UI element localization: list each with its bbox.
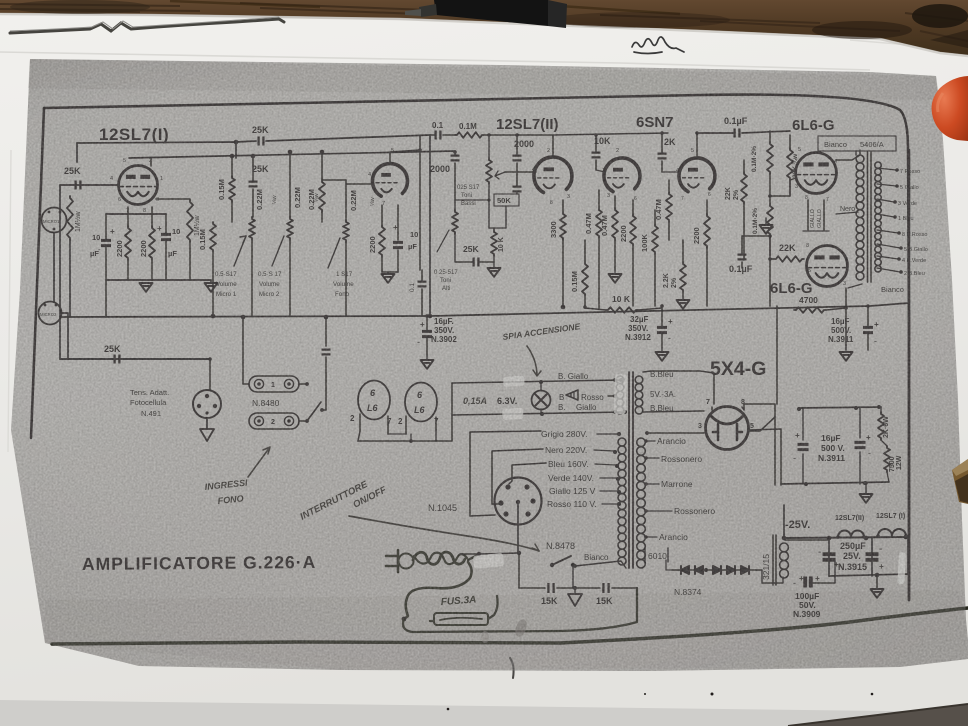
heater winding right [635, 376, 643, 384]
potentiometer 0.22M volume micro2 [287, 217, 293, 240]
resistor 2200 cathode 1 [125, 226, 131, 260]
wire lamp bracket [436, 383, 452, 441]
socket 6L6 B [405, 383, 437, 422]
wire rect pins [712, 404, 775, 485]
op tube V3b 6SN7 second [679, 158, 715, 192]
wire grid 6L6a [790, 178, 796, 180]
secondary tap 1 Bleu [877, 214, 894, 217]
wire 15K row [519, 553, 637, 588]
wire rect plate 3 [647, 432, 704, 434]
diode string N.8374 [672, 569, 756, 571]
rectifier tube 5X4-G [706, 407, 749, 450]
wire [845, 288, 847, 345]
orange tool handle top right [932, 76, 968, 141]
ground N3912 [656, 352, 669, 361]
wire plate rail [77, 142, 236, 158]
capacitor 100uF 50V N.3909 [762, 577, 783, 583]
output transformer secondary [875, 162, 881, 168]
tap Rossonero [645, 457, 659, 459]
wire bracket Grigio [470, 431, 541, 516]
connector N.8480 input 2 [249, 413, 299, 429]
wire vertical left rail [59, 185, 61, 359]
connector MICRO2 [39, 302, 62, 325]
capacitor 16uF mid-right [859, 408, 861, 484]
wire fono top [322, 179, 346, 181]
resistor 2200 stage2 [379, 225, 385, 257]
resistor 0.1M 2% lower [767, 204, 773, 236]
capacitor 0.1uF lower [738, 255, 747, 260]
wire cathode row [106, 213, 166, 215]
resistor 7500 12W [884, 446, 890, 472]
op tube V2 12SL7(II) [534, 157, 572, 192]
resistor 1M 1/2w grid [67, 196, 73, 240]
switch input select [307, 402, 321, 421]
wire grid2 [346, 183, 372, 185]
secondary tap 7 Rosso [877, 168, 896, 170]
capacitor mid 50K [513, 187, 522, 192]
wire right vertical [908, 150, 911, 600]
heater loops 12SL7(I) [878, 529, 906, 536]
ground tone [488, 268, 501, 277]
capacitor 250uF left [828, 538, 830, 576]
ground bias [871, 589, 884, 598]
speck 4 [644, 693, 646, 695]
mains plug [386, 556, 398, 566]
secondary tap 5 Giallo [877, 184, 896, 186]
switch mains N.8478 [550, 563, 554, 567]
power tube 6L6 upper [796, 153, 837, 194]
potentiometer 0.22M volume micro1 [249, 217, 255, 240]
wire main bus upper [60, 303, 909, 317]
secondary tap 3 Verde [877, 199, 894, 202]
wire PSU risers [845, 345, 847, 350]
capacitor 16uF 500V N.3911 (top) [863, 327, 873, 332]
secondary tap 4 B.Verde [877, 256, 898, 259]
wire socket stem [517, 504, 519, 553]
speck 3 [447, 708, 450, 711]
potentiometer 0.22M volume fono [343, 220, 349, 242]
hand bottom run [403, 588, 637, 632]
capacitor 25K to switch [325, 317, 327, 346]
white-out corrections [503, 376, 525, 387]
ground N3902 [421, 360, 434, 369]
op tube V1 12SL7(I) first triode [119, 166, 158, 205]
resistor 0.15M first [229, 176, 235, 202]
wire diode out [756, 570, 762, 583]
ground N3911 [840, 352, 853, 361]
wire to N.8480 [242, 317, 244, 384]
wire [69, 240, 71, 317]
wire grid rail B [129, 151, 455, 158]
output transformer primary [856, 155, 864, 163]
resistor 2200 b [704, 214, 710, 248]
pen scribble on paper [632, 37, 684, 54]
resistor 3300 cathode V2 [560, 212, 566, 240]
ground stage2 [382, 274, 395, 283]
fuse FUS.3A [434, 613, 488, 625]
capacitor 15K right [603, 583, 608, 593]
speck 2 [871, 693, 874, 696]
resistor 22K 1/4w [787, 148, 793, 180]
twisted cord [413, 552, 465, 564]
capacitor 16uF 350V N.3902 [422, 331, 432, 336]
wire PSU top rail [799, 407, 881, 408]
label Bianco box [818, 136, 896, 151]
lamp spia [532, 391, 551, 410]
speck 1 [711, 693, 714, 696]
wire heater feeds [608, 395, 614, 397]
secondary tap 2 B.Bleu [877, 268, 900, 272]
wire bus 25K row [60, 358, 210, 360]
resistor 2.2K 2% [680, 262, 686, 292]
resistor 0.47M b [666, 192, 672, 222]
ground fotocellula open [200, 429, 214, 441]
schematic border frame [44, 95, 909, 600]
wire long vertical [419, 136, 421, 270]
tan object right edge [952, 459, 968, 504]
wire [76, 143, 78, 162]
cathode labels GIALLO [808, 200, 824, 230]
secondary tap 8 B.Rosso [877, 230, 898, 233]
ground 6SN7b [677, 300, 690, 309]
resistor 1M 1/2w second [187, 200, 193, 242]
stain mid [481, 631, 489, 643]
resistor 0.47M 6SN7a [612, 208, 618, 240]
ground 15K [568, 594, 582, 606]
secondary winding HT [637, 438, 646, 447]
primary winding [618, 438, 626, 446]
resistor 0.1M 2% upper [767, 142, 773, 174]
wire lamp top rail [452, 380, 621, 383]
ground cathode stage1 [140, 283, 153, 292]
resistor 2200 6SN7 [630, 214, 636, 246]
resistor 2K 6W [878, 412, 884, 440]
tap Marrone [645, 483, 659, 485]
transformer core upper [629, 372, 633, 568]
wire bracket Bleu [509, 463, 546, 484]
electrolytic 10uF cathode 2 [161, 234, 171, 239]
dark bottom right corner [788, 704, 968, 726]
wire mic1 to grid [60, 184, 118, 186]
ground 6L6 [760, 225, 773, 234]
tap Arancio [645, 440, 655, 442]
electrolytic 10uF cathode 1 [101, 240, 111, 245]
resistor 22K 2% interstage [741, 172, 747, 204]
pen mark below sheet [510, 658, 514, 678]
resistor 0.15M V2 [582, 262, 588, 296]
hand loop to fuse [404, 562, 472, 619]
ground PSU [860, 494, 873, 503]
stain smudge [513, 618, 529, 638]
wire [489, 200, 506, 228]
resistor 10K tone [491, 230, 497, 256]
wire bias rail [784, 537, 908, 538]
wire bracket Nero [492, 449, 543, 504]
capacitor 250uF right [871, 538, 873, 576]
capacitor 16uF 500V N.3911 mid-left [802, 408, 804, 484]
op tube V3 6SN7 first [604, 158, 640, 192]
ground 6SN7a [609, 274, 622, 283]
wire stage2 plate [390, 150, 420, 163]
connector MICRO1 [42, 208, 67, 233]
socket 6L6 A [358, 381, 390, 420]
wire lamp bottom rail [452, 412, 625, 415]
wire transformer bottom [848, 284, 862, 288]
wire grid V3 [596, 170, 605, 172]
secondary tap 5 B.Giallo [877, 244, 900, 248]
wire B+ vertical pair [776, 306, 778, 404]
capacitor 15K left [548, 583, 553, 593]
wire cord to junction [468, 554, 479, 560]
wire grid V2 [505, 171, 536, 173]
wire transformer top [836, 150, 860, 160]
wire 25K to fotocellula [209, 359, 211, 390]
wire rect plate 5 [749, 429, 781, 485]
power tube 6L6 lower [807, 246, 848, 287]
resistor 2200 cathode 1b [149, 226, 155, 260]
potentiometer tone alti [452, 210, 458, 234]
resistor 0.22M third [319, 180, 325, 212]
resistor 100K [652, 224, 658, 254]
ground stage1b [205, 283, 218, 292]
wire PSU bottom rail [781, 482, 889, 484]
twist tie wire on paper [10, 19, 284, 33]
connector socket mains [495, 478, 542, 525]
connector fotocellula [193, 390, 221, 418]
wire [150, 158, 152, 166]
resistor 50K boxed [494, 194, 519, 206]
wire -25V [783, 505, 785, 536]
potentiometer tone bassi [486, 158, 492, 184]
wire [429, 135, 431, 316]
electrolytic 10uF stage2 [393, 242, 403, 247]
wire 6SN7 plates [696, 133, 698, 158]
heater winding left [616, 376, 624, 384]
connector N.8480 input 1 [249, 376, 299, 392]
handwritten pointer interruttore [349, 516, 539, 551]
tap Arancio 2 [645, 536, 657, 538]
output transformer core [868, 152, 872, 282]
resistor 0.15M second [210, 222, 216, 252]
wire sockets heaters [358, 414, 436, 441]
resistor 0.47M V2 plate [596, 208, 602, 238]
wire to rectifier filament [643, 371, 714, 404]
wire grid V3b [662, 171, 680, 173]
heater loops 12SL7(II) [838, 531, 864, 538]
op tube V1b 12SL7(I) second triode [372, 164, 407, 197]
wire bias bottom [829, 537, 908, 576]
tap Rossonero 2 [645, 510, 672, 512]
